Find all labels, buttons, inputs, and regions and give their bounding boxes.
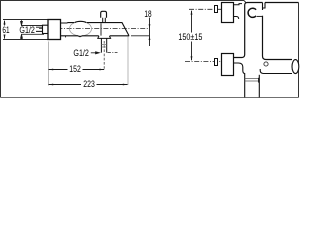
dimension 152 arrows	[49, 69, 54, 71]
dimension 150±15 arrow up	[191, 10, 193, 15]
trunk right edge	[263, 16, 293, 60]
svg-text:150±15: 150±15	[178, 32, 202, 42]
svg-text:G1/2: G1/2	[73, 48, 89, 58]
svg-text:223: 223	[83, 79, 95, 89]
centerline bottom connection	[185, 61, 232, 63]
extension line wall plane	[48, 42, 50, 86]
hose connection double line	[245, 79, 259, 81]
top wall flange	[222, 3, 234, 23]
dimension 61 arrow down	[4, 35, 6, 40]
dimension 223 line	[49, 84, 128, 86]
spout joint divider	[100, 23, 102, 35]
centerline top connection	[189, 8, 231, 10]
outlet centerline cross	[108, 52, 118, 54]
divider tick	[65, 36, 67, 38]
dimension 61 line	[4, 21, 6, 39]
handwheel bottom notch	[78, 35, 82, 38]
svg-text:152: 152	[69, 64, 81, 74]
spout end cap ellipse	[292, 60, 299, 74]
bottom wall flange	[222, 54, 234, 76]
G1/2 outside arrow lower	[21, 35, 23, 40]
extension line bottom (body bottom, left view)	[3, 39, 48, 41]
dimension 152 line	[49, 69, 105, 71]
spout bottom extension line	[131, 35, 150, 37]
svg-text:61: 61	[2, 25, 9, 35]
hose connection nut	[258, 78, 260, 83]
spout bottom edge	[260, 69, 292, 74]
frame border	[1, 1, 299, 98]
outlet lip	[98, 36, 111, 39]
outlet vertical centerline dashed	[103, 41, 105, 70]
extension line spout tip	[127, 37, 129, 86]
dimension 150±15 arrow down	[191, 56, 193, 61]
extension line nut top	[21, 25, 44, 27]
top union neck	[234, 4, 243, 19]
outlet thread lines	[101, 45, 106, 47]
union nut	[43, 25, 49, 33]
handwheel ellipse (faint, behind pipe)	[70, 22, 92, 36]
diverter button	[264, 62, 268, 66]
G1/2 outside arrow upper	[21, 20, 23, 25]
shower pipe right edge	[258, 75, 260, 98]
bottom neck and shower pipe left edge	[234, 63, 245, 97]
trunk top notch	[263, 3, 266, 11]
dimension 18 line	[149, 18, 151, 46]
top inlet stub	[215, 6, 218, 13]
dimension 18 arrow down	[149, 24, 151, 28]
inlet pipe	[36, 27, 43, 31]
trunk body	[234, 3, 299, 58]
dimension 150±15 line	[191, 11, 193, 60]
diverter knob stem	[103, 18, 106, 23]
handwheel top arc	[75, 21, 87, 22]
dimension 18 arrow up	[149, 36, 151, 40]
centerline (spout axis)	[39, 28, 149, 30]
diverter knob head	[101, 11, 107, 17]
boss ledge	[257, 15, 263, 17]
extension line nut bottom	[21, 33, 44, 35]
bottom inlet stub	[215, 59, 218, 66]
screw boss C	[248, 8, 256, 17]
G1/2 outlet leader arrow	[91, 52, 99, 54]
spout body outline	[61, 23, 130, 36]
svg-text:18: 18	[144, 9, 151, 19]
outlet tube	[101, 38, 106, 52]
dimension 61 arrow up	[4, 20, 6, 25]
wall escutcheon body	[48, 20, 61, 40]
dimension 223 arrows	[49, 84, 54, 86]
extension line top (body top, left view)	[3, 19, 48, 21]
svg-text:G1/2: G1/2	[19, 25, 35, 35]
